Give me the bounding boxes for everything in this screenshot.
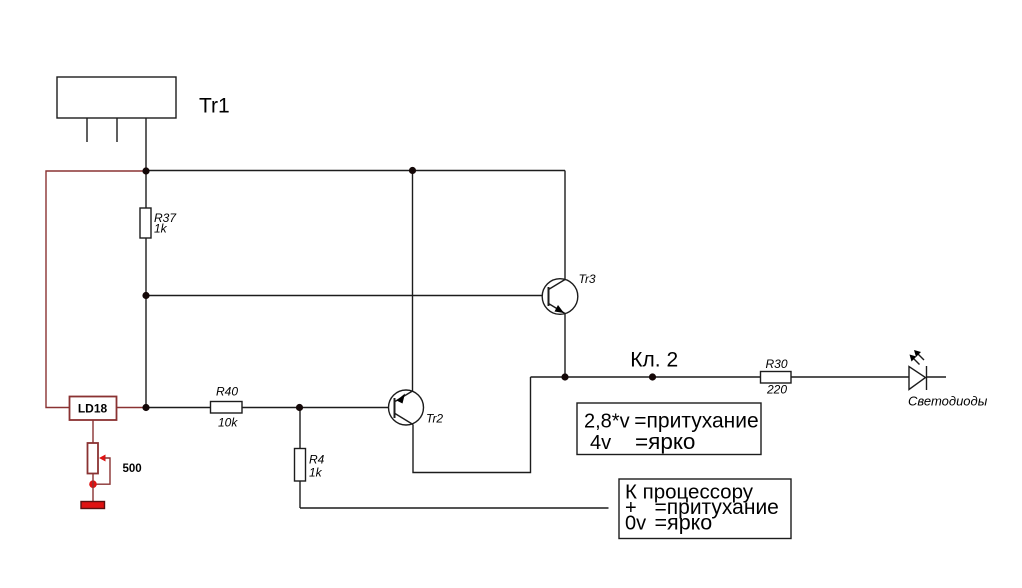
Tr1 pin 3 wire [145,118,147,171]
pot wiper lead [96,458,110,484]
wire R30 to LED [791,376,909,378]
svg-text:R4: R4 [309,453,325,467]
svg-text:Tr3: Tr3 [579,272,596,286]
node junction LD18/R40 [142,404,149,411]
red wire LD18 output to node [117,407,147,409]
red node junction pot [89,480,97,488]
wire R40 to Tr2 base [242,407,389,409]
svg-text:Кл. 2: Кл. 2 [630,349,678,372]
transformer Tr1 body [57,77,176,118]
red supply wire from node A to LD18 input [46,171,146,408]
note box processor [619,479,791,539]
resistor R37 [140,208,151,238]
Tr2 base bar [394,398,396,418]
wire top supply rail [146,170,565,172]
node junction R40/R4/Tr2 base [296,404,303,411]
LED emission arrow 1 head [910,355,917,362]
red wire LD18 to potentiometer [92,420,94,443]
svg-text:R40: R40 [216,385,238,399]
Tr1 pin 1 [86,118,88,142]
wire to processor note box [300,507,609,509]
svg-text:500: 500 [123,463,142,475]
resistor R40 [211,402,243,414]
regulator LD18 box [70,397,117,421]
wire R37 bottom lead [145,238,147,296]
svg-text:1k: 1k [154,222,168,236]
svg-text:Tr2: Tr2 [426,412,443,426]
svg-text:=ярко: =ярко [655,511,713,535]
LED emission arrow 2 head [914,350,921,357]
svg-text:Tr1: Tr1 [199,95,230,118]
node junction rail/Tr2 emitter [409,167,416,174]
Tr2 emitter line [395,391,413,402]
svg-text:1k: 1k [309,466,323,480]
wire node to R40 [146,407,211,409]
wire emitter bus to R30 [531,376,761,378]
Tr3 emitter line [549,304,566,314]
LED emission arrow 2 [916,352,925,361]
wire R4 bottom lead [299,481,301,508]
LED cathode bar [926,366,928,390]
resistor R4 [295,449,306,482]
wire R37 top lead [145,171,147,208]
transistor Q Tr2 circle [389,390,424,425]
resistor R30 [761,372,792,384]
pot wiper arrow [99,455,106,462]
svg-text:4v: 4v [590,432,611,454]
potentiometer 500 body [88,443,99,474]
wire R4 top lead [299,408,301,449]
svg-text:2,8*v: 2,8*v [584,411,630,433]
node terminal Kl.2 [649,373,656,380]
wire Tr3 emitter down [564,314,566,378]
red wire pot to ground [92,474,94,502]
Tr1 pin 2 [116,118,118,142]
Tr2 emitter arrow (PNP, points to base) [397,394,406,404]
LED emission arrow 1 [911,356,920,365]
wire left vertical to LD18 node [145,296,147,408]
wire Tr2 collector to emitter bus [413,377,531,473]
Tr2 collector line [395,414,413,425]
wire LED out [927,376,947,378]
svg-text:=ярко: =ярко [635,429,695,454]
node junction Tr1/R37/red [142,167,149,174]
svg-text:Светодиоды: Светодиоды [908,394,988,409]
wire Tr2 emitter up to rail [412,171,414,392]
wire base rail to Tr3 [146,295,543,297]
svg-text:10k: 10k [218,416,238,430]
Tr3 emitter arrow (NPN, points out) [555,305,565,313]
transistor Q Tr3 circle [542,279,578,315]
Tr3 collector line [549,280,566,290]
ground [81,502,105,509]
node junction Tr3 emitter bus [561,373,568,380]
Tr3 base bar [548,287,550,306]
note box voltages [577,403,761,455]
LED D1 triangle [909,367,926,390]
svg-text:220: 220 [766,383,787,397]
svg-text:LD18: LD18 [78,402,108,416]
svg-text:0v: 0v [625,513,646,535]
node junction R37/Tr3 base [142,292,149,299]
wire rail down to Tr3 collector [564,171,566,280]
svg-text:R30: R30 [766,357,788,371]
